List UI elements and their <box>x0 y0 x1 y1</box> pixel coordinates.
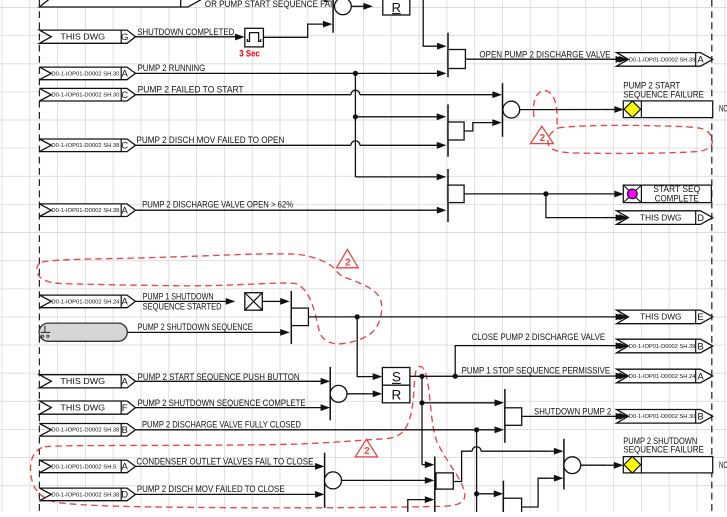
svg-text:PUMP 2 DISCH MOV FAILED TO OPE: PUMP 2 DISCH MOV FAILED TO OPEN <box>136 135 284 145</box>
svg-text:SHUTDOWN COMPLETED: SHUTDOWN COMPLETED <box>137 27 234 37</box>
svg-text:THIS DWG: THIS DWG <box>640 313 681 322</box>
svg-text:NOT: NOT <box>719 460 727 470</box>
svg-text:OPEN PUMP 2 DISCHARGE VALVE: OPEN PUMP 2 DISCHARGE VALVE <box>479 50 610 60</box>
svg-text:F: F <box>122 403 128 414</box>
svg-text:D0-1-IOP01-D0002 SH.39: D0-1-IOP01-D0002 SH.39 <box>629 57 696 63</box>
svg-text:2: 2 <box>540 133 546 144</box>
svg-text:SHUTDOWN PUMP 2: SHUTDOWN PUMP 2 <box>534 406 611 416</box>
svg-text:D0-1-IOP01-D0002 SH.38: D0-1-IOP01-D0002 SH.38 <box>51 208 119 214</box>
svg-text:R: R <box>392 387 402 402</box>
svg-text:B: B <box>697 341 703 352</box>
svg-text:D0-1-IOP01-D0002 SH.5: D0-1-IOP01-D0002 SH.5 <box>51 464 116 470</box>
svg-text:THIS DWG: THIS DWG <box>60 33 105 42</box>
svg-text:D0-1-IOP01-D0002 SH.38: D0-1-IOP01-D0002 SH.38 <box>51 428 119 434</box>
svg-text:A: A <box>122 462 129 473</box>
svg-text:COMPLETE: COMPLETE <box>655 193 699 203</box>
svg-text:D0-1-IOP01-D0002 SH.30: D0-1-IOP01-D0002 SH.30 <box>629 414 696 420</box>
svg-text:OR PUMP START SEQUENCE FAIL: OR PUMP START SEQUENCE FAIL <box>205 0 337 9</box>
svg-text:B: B <box>697 412 703 423</box>
svg-text:CLOSE PUMP 2 DISCHARGE VALVE: CLOSE PUMP 2 DISCHARGE VALVE <box>472 332 605 342</box>
svg-text:A: A <box>122 206 129 217</box>
svg-text:CONDENSER OUTLET VALVES FAIL T: CONDENSER OUTLET VALVES FAIL TO CLOSE <box>136 456 313 466</box>
svg-text:PUMP 2 DISCH MOV FAILED TO CLO: PUMP 2 DISCH MOV FAILED TO CLOSE <box>137 484 285 494</box>
svg-text:B: B <box>122 425 128 436</box>
svg-text:A: A <box>697 371 704 382</box>
svg-text:NOT: NOT <box>719 104 727 114</box>
svg-text:D0-1-IOP01-D0002 SH.39: D0-1-IOP01-D0002 SH.39 <box>629 344 696 350</box>
svg-text:G: G <box>121 32 128 43</box>
svg-text:C: C <box>121 141 128 152</box>
svg-text:R: R <box>392 0 401 15</box>
svg-text:D0-1-IOP01-D0002 SH.24: D0-1-IOP01-D0002 SH.24 <box>629 374 696 380</box>
svg-text:THIS DWG: THIS DWG <box>640 213 681 222</box>
svg-text:2: 2 <box>364 446 370 457</box>
svg-text:PUMP 1 SHUTDOWN: PUMP 1 SHUTDOWN <box>143 292 214 302</box>
svg-text:PUMP 2 DISCHARGE VALVE FULLY C: PUMP 2 DISCHARGE VALVE FULLY CLOSED <box>142 420 301 430</box>
svg-text:A: A <box>122 377 129 388</box>
svg-text:A: A <box>697 55 704 66</box>
svg-text:D: D <box>697 213 704 224</box>
svg-text:SEQUENCE FAILURE: SEQUENCE FAILURE <box>623 89 704 99</box>
svg-text:PUMP 2 DISCHARGE VALVE OPEN >: PUMP 2 DISCHARGE VALVE OPEN > 62% <box>142 199 293 209</box>
svg-text:SEQUENCE FAILURE: SEQUENCE FAILURE <box>623 445 704 455</box>
svg-text:S: S <box>392 370 401 385</box>
svg-text:D0-1-IOP01-D0002 SH.38: D0-1-IOP01-D0002 SH.38 <box>51 492 119 498</box>
svg-text:PUMP 2 RUNNING: PUMP 2 RUNNING <box>138 63 206 73</box>
svg-text:SEQUENCE STARTED: SEQUENCE STARTED <box>143 302 222 312</box>
svg-text:D0-1-IOP01-D0002 SH.24: D0-1-IOP01-D0002 SH.24 <box>51 299 119 305</box>
svg-text:A: A <box>122 69 129 80</box>
svg-text:THIS DWG: THIS DWG <box>60 377 105 386</box>
svg-text:D0-1-IOP01-D0002 SH.30: D0-1-IOP01-D0002 SH.30 <box>51 71 119 77</box>
svg-text:C: C <box>121 90 128 101</box>
svg-text:D0-1-IOP01-D0002 SH.38: D0-1-IOP01-D0002 SH.38 <box>51 143 119 149</box>
svg-text:THIS DWG: THIS DWG <box>60 404 105 413</box>
svg-text:PUMP 2 SHUTDOWN SEQUENCE: PUMP 2 SHUTDOWN SEQUENCE <box>138 322 253 332</box>
svg-text:PUMP 2 SHUTDOWN SEQUENCE COMPL: PUMP 2 SHUTDOWN SEQUENCE COMPLETE <box>138 398 306 408</box>
svg-text:E: E <box>697 312 703 323</box>
svg-text:A: A <box>122 297 129 308</box>
svg-text:3 Sec: 3 Sec <box>239 49 259 59</box>
svg-text:2: 2 <box>345 257 351 268</box>
svg-text:PUMP 1 STOP SEQUENCE PERMISSIV: PUMP 1 STOP SEQUENCE PERMISSIVE <box>462 365 610 375</box>
svg-text:PUMP 2 FAILED TO START: PUMP 2 FAILED TO START <box>138 85 244 95</box>
svg-text:PUMP 2 START SEQUENCE PUSH BUT: PUMP 2 START SEQUENCE PUSH BUTTON <box>138 372 300 382</box>
svg-text:D0-1-IOP01-D0002 SH.30: D0-1-IOP01-D0002 SH.30 <box>51 93 119 99</box>
svg-text:D: D <box>121 490 128 501</box>
